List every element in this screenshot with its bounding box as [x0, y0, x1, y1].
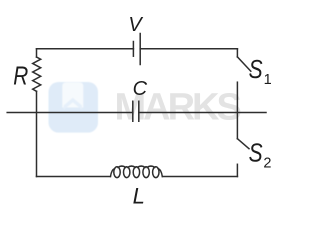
switch S2 blade: [237, 139, 249, 149]
wire right vertical bottom stub: [236, 164, 238, 176]
svg-text:S: S: [249, 56, 263, 84]
svg-text:C: C: [133, 78, 148, 100]
capacitor C plates: [133, 101, 139, 121]
wire middle horizontal right: [139, 112, 266, 114]
svg-text:2: 2: [263, 156, 271, 172]
switch S1 top stub: [236, 49, 238, 57]
wire left vertical upper: [36, 49, 38, 57]
wire bottom horizontal right: [163, 176, 238, 178]
resistor R: [33, 57, 41, 91]
svg-text:V: V: [128, 14, 143, 36]
svg-text:1: 1: [264, 72, 272, 88]
watermark logo box: [49, 82, 99, 133]
wire middle horizontal left: [7, 112, 133, 114]
wire right vertical middle: [236, 82, 238, 139]
wire bottom horizontal left: [37, 176, 111, 178]
inductor L coil: [111, 166, 163, 178]
wire left vertical lower: [36, 91, 38, 176]
wire top right horizontal: [140, 48, 237, 50]
svg-text:S: S: [249, 140, 263, 168]
battery V long plate: [139, 34, 141, 65]
battery V short plate: [132, 42, 134, 57]
svg-text:L: L: [133, 183, 145, 208]
wire top left horizontal: [37, 48, 134, 50]
switch S1 blade: [237, 57, 250, 71]
svg-text:R: R: [13, 60, 28, 90]
